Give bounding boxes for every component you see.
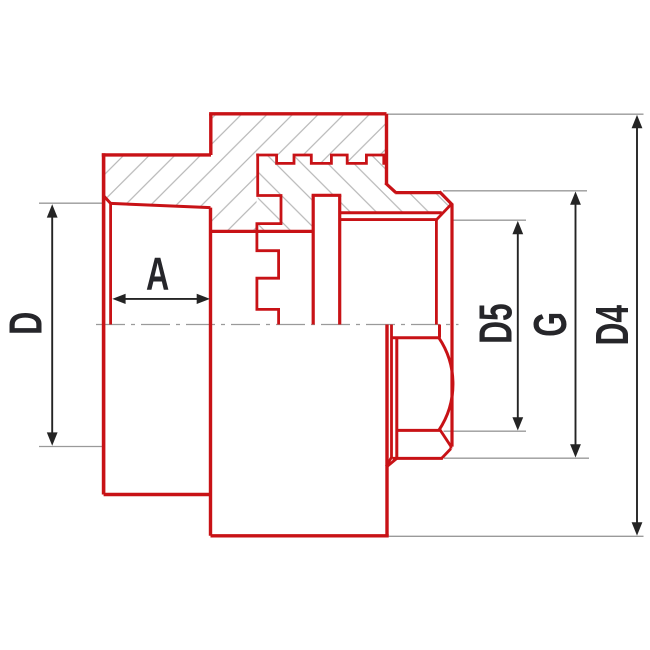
thread crest line A bbox=[340, 211, 442, 214]
stop ring bar top edge bbox=[312, 194, 342, 197]
top block left edge bbox=[209, 114, 212, 155]
svg-text:D: D bbox=[1, 312, 52, 335]
socket bottom edge bbox=[104, 493, 212, 496]
hatch region: mid band left of insert bbox=[211, 155, 257, 232]
extension line D4 bottom bbox=[389, 535, 644, 537]
nut top flat bbox=[392, 336, 439, 339]
nut bottom right chamfer upper bbox=[440, 430, 451, 447]
nut bottom flat bbox=[393, 457, 443, 460]
extension line G top bbox=[443, 190, 587, 192]
nut back edge bbox=[386, 325, 391, 467]
svg-text:A: A bbox=[146, 249, 169, 300]
body bottom edge bbox=[211, 534, 389, 537]
socket taper line bbox=[111, 203, 211, 207]
dimension D4 bbox=[632, 115, 643, 536]
stop ring bar left edge bbox=[312, 195, 315, 324]
svg-text:D5: D5 bbox=[471, 303, 522, 344]
svg-text:G: G bbox=[525, 312, 576, 337]
hatch region: teeth notch fills bbox=[277, 155, 386, 164]
extension line D5 bottom bbox=[444, 430, 527, 432]
extension line D4 top bbox=[388, 113, 644, 115]
socket bore edge bbox=[109, 203, 112, 324]
socket outer left edge bbox=[102, 153, 106, 494]
dimension D5 bbox=[512, 221, 523, 431]
dimension A bbox=[112, 294, 210, 304]
nut bottom right vertical bbox=[449, 446, 452, 448]
svg-text:D4: D4 bbox=[587, 305, 638, 346]
nut bottom right chamfer lower bbox=[442, 449, 451, 459]
thread bore edge bbox=[435, 220, 438, 325]
stop ring bar right edge bbox=[338, 195, 341, 324]
shoulder chamfer left bbox=[385, 183, 395, 193]
nut left facet edge bbox=[395, 338, 398, 459]
top block right edge bbox=[385, 114, 388, 184]
body left vertical bbox=[209, 208, 212, 536]
shoulder top edge bbox=[395, 191, 440, 194]
dimension D bbox=[47, 204, 58, 445]
thread crest line B bbox=[340, 218, 437, 221]
red outline group bbox=[102, 114, 453, 536]
shoulder chamfer right bbox=[439, 192, 452, 205]
extension line D top bbox=[39, 202, 104, 204]
inner cavity top line bbox=[211, 230, 314, 233]
hatch region: socket wall section (left band) bbox=[104, 155, 211, 208]
socket top edge bbox=[102, 153, 211, 156]
extension line D bottom bbox=[39, 446, 102, 448]
hatch region: top block (plastic body section) bbox=[211, 114, 387, 155]
nut corner vertical at centerline bbox=[438, 325, 441, 338]
socket mouth chamfer bbox=[104, 196, 111, 204]
extension line G bottom bbox=[444, 457, 589, 459]
hatch region: metal insert section "\" bbox=[258, 155, 452, 231]
dimension G bbox=[570, 192, 581, 458]
female thread profile bbox=[257, 231, 279, 324]
thread end chamfer bbox=[436, 204, 451, 220]
nut bottom left chamfer bbox=[387, 458, 397, 466]
top block top edge bbox=[209, 112, 386, 115]
extension line D5 top bbox=[453, 219, 526, 221]
body right edge below nut bbox=[385, 325, 388, 536]
centerline bbox=[96, 324, 459, 326]
nut corner arc bbox=[439, 338, 453, 431]
thread outer edge bbox=[450, 204, 453, 447]
insert teeth line bbox=[256, 155, 386, 163]
nut lower facet line bbox=[397, 429, 441, 432]
insert pocket boundary bbox=[257, 154, 281, 232]
